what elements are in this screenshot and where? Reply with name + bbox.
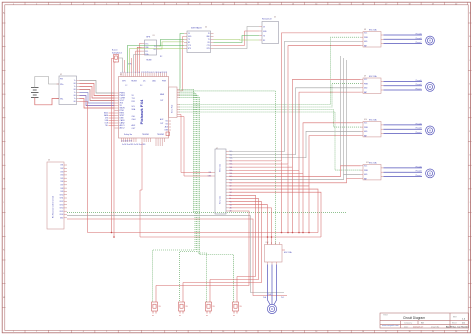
remote control unit U5: [262, 22, 279, 44]
svg-text:TX: TX: [154, 46, 156, 48]
svg-text:PhaseA: PhaseA: [416, 79, 423, 82]
svg-text:1: 1: [13, 331, 14, 333]
svg-text:Sheet:: Sheet:: [452, 322, 457, 325]
svg-text:5V: 5V: [208, 33, 210, 35]
svg-text:13: 13: [145, 71, 147, 73]
wires telemetry to remote: [214, 27, 260, 49]
wire receiver power gray: [67, 216, 284, 293]
svg-text:17: 17: [385, 3, 387, 5]
wires ESC5 to motor M5: [268, 265, 271, 305]
svg-text:M: M: [429, 129, 431, 132]
red risers to bus: [282, 162, 310, 233]
telemetry radio U4: [187, 31, 211, 53]
svg-text:M: M: [429, 86, 431, 89]
svg-text:7: 7: [153, 331, 154, 333]
svg-text:U11: U11: [366, 162, 369, 164]
U1 top pins: [121, 71, 169, 76]
svg-text:CHL: CHL: [132, 116, 136, 118]
svg-text:Drawn By:: Drawn By:: [431, 326, 440, 328]
svg-text:9: 9: [199, 3, 200, 5]
svg-text:13: 13: [292, 331, 294, 333]
motor M1: [426, 36, 435, 45]
svg-text:CH2: CH2: [60, 168, 63, 170]
power distribution board U7: [215, 149, 226, 214]
wires GPS to U1: [139, 44, 141, 73]
wires ESC4 phases to motor M4: [384, 167, 423, 169]
svg-text:CH12: CH12: [59, 201, 63, 203]
svg-text:11: 11: [245, 331, 247, 333]
svg-text:PhaseC: PhaseC: [415, 89, 422, 91]
svg-text:Circuit Diagram: Circuit Diagram: [403, 316, 425, 320]
dotted PWM rows to ESCs: [180, 37, 361, 104]
svg-text:20: 20: [160, 71, 162, 73]
svg-text:5vOK FrxOSD 5vOK FrxOSD: 5vOK FrxOSD 5vOK FrxOSD: [122, 144, 146, 146]
svg-text:3: 3: [125, 72, 127, 73]
svg-text:1 2 3 4 5 6 7 8 9: 1 2 3 4 5 6 7 8 9: [121, 140, 132, 142]
svg-text:12: 12: [269, 331, 271, 333]
U1 corner element: [166, 132, 170, 136]
svg-text:17: 17: [385, 331, 387, 333]
svg-text:L: L: [3, 273, 4, 275]
svg-text:U7: U7: [216, 148, 218, 150]
svg-text:TX1: TX1: [132, 98, 135, 100]
svg-text:CTS: CTS: [207, 45, 210, 47]
wire bus risers down: [229, 189, 318, 232]
svg-text:CH13: CH13: [59, 204, 63, 206]
svg-text:U8: U8: [364, 29, 366, 31]
svg-text:CH7: CH7: [60, 185, 63, 187]
svg-text:14: 14: [315, 331, 317, 333]
svg-text:PhaseB: PhaseB: [416, 128, 423, 130]
svg-text:PhaseA: PhaseA: [416, 33, 423, 36]
svg-text:IO2: IO2: [165, 124, 168, 126]
svg-text:U9: U9: [364, 76, 366, 78]
svg-text:14: 14: [315, 3, 317, 5]
buzzer/safety switch SW1: [114, 55, 119, 63]
motor M3: [426, 126, 435, 135]
wire battery- to power module: [35, 98, 59, 105]
U1 right lower pins: [169, 121, 172, 130]
svg-text:PhaseB: PhaseB: [416, 38, 423, 40]
svg-text:SafetySwitch: SafetySwitch: [112, 51, 122, 54]
svg-text:U5: U5: [274, 17, 276, 19]
svg-text:CH6: CH6: [60, 181, 63, 183]
servo connector S1: [152, 302, 158, 314]
svg-text:1 2: 1 2: [125, 85, 127, 87]
svg-text:18: 18: [156, 71, 158, 73]
svg-text:CH4: CH4: [60, 175, 63, 177]
svg-text:U6: U6: [48, 160, 50, 162]
svg-text:PhaseC: PhaseC: [415, 175, 422, 177]
svg-text:U3: U3: [153, 35, 155, 37]
ESC 4 (30A): [363, 165, 381, 180]
U1 bottom pins: [122, 138, 165, 142]
svg-text:SCL: SCL: [132, 106, 136, 108]
svg-text:20: 20: [455, 3, 457, 5]
svg-text:21: 21: [162, 71, 164, 73]
svg-text:PhaseC: PhaseC: [415, 132, 422, 134]
svg-text:13: 13: [292, 3, 294, 5]
svg-text:23: 23: [166, 71, 168, 73]
svg-text:CH9: CH9: [60, 191, 63, 193]
dotted rows to turn-down block: [180, 89, 194, 212]
svg-text:PhaseA: PhaseA: [416, 122, 423, 125]
svg-text:Buzzer: Buzzer: [112, 50, 118, 52]
svg-text:M: M: [429, 172, 431, 175]
wires ESC2 phases to motor M2: [384, 80, 423, 82]
svg-text:16: 16: [362, 331, 364, 333]
svg-text:Aby W.Sup, Can Mustafa: Aby W.Sup, Can Mustafa: [446, 326, 469, 329]
svg-text:15: 15: [150, 71, 152, 73]
svg-text:16: 16: [362, 3, 364, 5]
svg-text:J: J: [3, 226, 4, 228]
servo drop stubs: [156, 277, 237, 303]
svg-text:15: 15: [339, 3, 341, 5]
svg-text:6: 6: [129, 331, 130, 333]
svg-text:OUT: OUT: [160, 100, 163, 102]
svg-text:V+: V+: [74, 92, 76, 94]
svg-text:USB: USB: [105, 120, 108, 122]
svg-text:Company:: Company:: [404, 323, 413, 325]
svg-text:CH16: CH16: [59, 214, 63, 216]
svg-text:U4: U4: [205, 26, 207, 28]
svg-text:10: 10: [222, 331, 224, 333]
wires U1 to PDB: [180, 115, 212, 173]
ESC 2 (30A): [363, 78, 381, 93]
svg-text:22: 22: [164, 71, 166, 73]
svg-text:8: 8: [176, 331, 177, 333]
svg-text:18: 18: [408, 331, 410, 333]
motor M5: [267, 304, 276, 313]
svg-text:TX: TX: [188, 39, 190, 41]
wires ESC3 phases to motor M3: [384, 124, 423, 126]
svg-text:9: 9: [137, 72, 139, 73]
svg-text:3: 3: [59, 331, 60, 333]
svg-text:Servo Rail: Servo Rail: [172, 104, 174, 113]
svg-text:CH11: CH11: [60, 198, 64, 200]
svg-text:20: 20: [455, 331, 457, 333]
svg-text:16: 16: [152, 71, 154, 73]
svg-text:5: 5: [106, 331, 107, 333]
servo connector S3: [206, 302, 212, 314]
wire bus feed pair down left: [112, 59, 115, 233]
svg-text:5V: 5V: [188, 33, 190, 35]
svg-text:CHH: CHH: [132, 119, 137, 121]
svg-text:ESC 30A: ESC 30A: [369, 161, 377, 164]
svg-text:VIN+: VIN+: [60, 84, 64, 86]
svg-text:Servo Out: Servo Out: [219, 195, 222, 204]
svg-text:2024-07-17: 2024-07-17: [413, 327, 424, 329]
svg-text:TITLE:: TITLE:: [383, 315, 389, 317]
svg-text:U1: U1: [120, 74, 122, 76]
dotted RC receiver PPM line: [67, 211, 346, 213]
svg-text:ESC 30A: ESC 30A: [369, 75, 377, 78]
ESC 3 (30A): [363, 122, 381, 137]
servo connector S4: [233, 302, 239, 314]
wire bundle: PDB fan-out risers: [229, 41, 361, 151]
svg-text:11: 11: [141, 71, 143, 73]
battery BT1: [31, 88, 39, 98]
svg-text:REV:: REV:: [453, 317, 457, 319]
svg-text:14: 14: [148, 71, 150, 73]
RC receiver U6: [47, 162, 64, 229]
svg-text:SCL: SCL: [145, 51, 148, 53]
svg-text:19: 19: [432, 331, 434, 333]
svg-text:7: 7: [153, 3, 154, 5]
U1 bottom extended stubs: [156, 142, 162, 146]
wire U1 bottom pin to bus 2: [140, 142, 142, 237]
motor M2: [426, 83, 435, 92]
svg-text:TELEM: TELEM: [146, 60, 152, 62]
svg-text:RX1: RX1: [132, 101, 136, 103]
svg-text:10: 10: [222, 3, 224, 5]
dotted signal bundle A from servo rail: [180, 91, 276, 245]
U1 left pins: [104, 93, 126, 130]
svg-text:CH3: CH3: [60, 171, 63, 173]
svg-text:TEL: TEL: [105, 125, 108, 127]
svg-text:11: 11: [245, 3, 247, 5]
svg-text:18: 18: [408, 3, 410, 5]
svg-text:ESC 30A: ESC 30A: [284, 251, 292, 254]
svg-text:19: 19: [158, 71, 160, 73]
svg-text:CTS: CTS: [188, 45, 191, 47]
wires GPS TX/RX to telemetry: [159, 39, 184, 46]
svg-text:TELEM1: TELEM1: [142, 134, 149, 136]
svg-text:19: 19: [432, 3, 434, 5]
motor M4: [426, 169, 435, 178]
svg-text:J: J: [470, 226, 471, 228]
svg-text:1: 1: [13, 3, 14, 5]
wire bundle: power module to flight controller: [80, 81, 115, 94]
svg-text:IO1: IO1: [165, 121, 168, 123]
svg-text:CH14: CH14: [59, 208, 63, 210]
svg-text:PhaseA: PhaseA: [416, 165, 423, 168]
svg-text:5: 5: [129, 72, 131, 73]
svg-text:3 4: 3 4: [140, 85, 142, 87]
svg-text:6: 6: [129, 3, 130, 5]
svg-text:3: 3: [59, 3, 60, 5]
svg-text:V+: V+: [74, 80, 76, 82]
svg-text:Safety Sw: Safety Sw: [124, 133, 133, 136]
svg-text:12: 12: [143, 71, 145, 73]
svg-text:15: 15: [339, 331, 341, 333]
power module U2: [57, 76, 80, 105]
gray verticals x340-346 upper segments: [340, 56, 342, 166]
svg-text:GPS: GPS: [146, 36, 151, 38]
svg-text:7: 7: [133, 72, 135, 73]
wire servo feeds from PDB: [229, 195, 256, 276]
ESC 1 (30A): [363, 32, 381, 47]
svg-text:RX: RX: [208, 42, 210, 44]
svg-text:M: M: [271, 308, 273, 311]
svg-text:TELEM: TELEM: [131, 81, 137, 83]
svg-text:U2: U2: [60, 74, 62, 76]
wire receiver power red: [67, 219, 287, 296]
U1 outside-left net labels: [109, 113, 115, 126]
svg-text:M: M: [429, 40, 431, 43]
svg-text:PhaseC: PhaseC: [415, 42, 422, 44]
riser junctions on bus: [281, 232, 283, 234]
svg-text:RTS: RTS: [207, 48, 210, 50]
svg-text:3DR RADIO: 3DR RADIO: [191, 27, 202, 30]
servo rail connector J2: [169, 87, 178, 118]
GPS module U3: [145, 40, 157, 55]
svg-text:4: 4: [83, 3, 84, 5]
svg-text:PhaseB: PhaseB: [416, 171, 423, 173]
svg-text:U12: U12: [266, 242, 269, 244]
wires ESC1 phases to motor M1: [384, 34, 423, 36]
svg-text:8: 8: [176, 3, 177, 5]
svg-text:Date:: Date:: [404, 325, 409, 328]
svg-text:4: 4: [83, 331, 84, 333]
svg-text:Motor Out: Motor Out: [219, 164, 222, 172]
bus line 2: [140, 236, 321, 238]
svg-text:12: 12: [269, 3, 271, 5]
svg-text:V+: V+: [74, 98, 76, 100]
svg-text:PhaseB: PhaseB: [416, 84, 423, 86]
svg-text:TX: TX: [208, 39, 210, 41]
bus line 1: [88, 232, 319, 234]
svg-text:CH8: CH8: [60, 188, 63, 190]
svg-text:L: L: [469, 273, 470, 275]
wire ESC5 power feeds: [229, 205, 268, 245]
svg-text:www.easyeda.com: www.easyeda.com: [382, 325, 399, 327]
wires telemetry to servo rail / U1: [180, 34, 185, 89]
svg-text:Pixhawk PX4: Pixhawk PX4: [139, 99, 144, 124]
wire buzzer to U1: [119, 58, 123, 73]
svg-text:RC Receiver (16 Channel): RC Receiver (16 Channel): [52, 196, 55, 219]
svg-text:RemoteCtrl: RemoteCtrl: [262, 18, 272, 21]
svg-text:TELEM2: TELEM2: [157, 134, 164, 136]
wire power module VBAT down to bus: [80, 102, 88, 233]
svg-text:17: 17: [154, 71, 156, 73]
svg-text:CH1: CH1: [60, 165, 63, 167]
svg-text:V+: V+: [74, 86, 76, 88]
svg-text:RTS: RTS: [188, 48, 191, 50]
svg-text:BUZZ: BUZZ: [104, 113, 108, 115]
svg-text:CH15: CH15: [59, 211, 63, 213]
svg-text:CH10: CH10: [59, 194, 63, 196]
title block: [380, 313, 469, 328]
svg-text:2: 2: [36, 331, 37, 333]
svg-text:ESC 30A: ESC 30A: [369, 118, 377, 121]
svg-text:ESC 30A: ESC 30A: [369, 28, 377, 31]
ESC 5 (30A): [265, 245, 283, 263]
svg-text:RX: RX: [188, 42, 190, 44]
svg-text:2: 2: [36, 3, 37, 5]
svg-text:ADC2: ADC2: [120, 127, 125, 130]
extra drop to U1: [131, 58, 133, 73]
svg-text:CH5: CH5: [60, 178, 63, 180]
svg-text:PhB: PhB: [268, 294, 271, 296]
svg-text:RX: RX: [154, 49, 156, 51]
svg-text:U10: U10: [364, 119, 367, 121]
wire battery+ to power module: [35, 77, 59, 88]
svg-text:VIN-: VIN-: [60, 99, 64, 101]
servo connector S2: [179, 302, 185, 314]
flight controller U1 Pixhawk PX4: [119, 77, 169, 139]
svg-text:5: 5: [106, 3, 107, 5]
svg-text:OUT: OUT: [160, 123, 163, 125]
svg-text:9: 9: [199, 331, 200, 333]
